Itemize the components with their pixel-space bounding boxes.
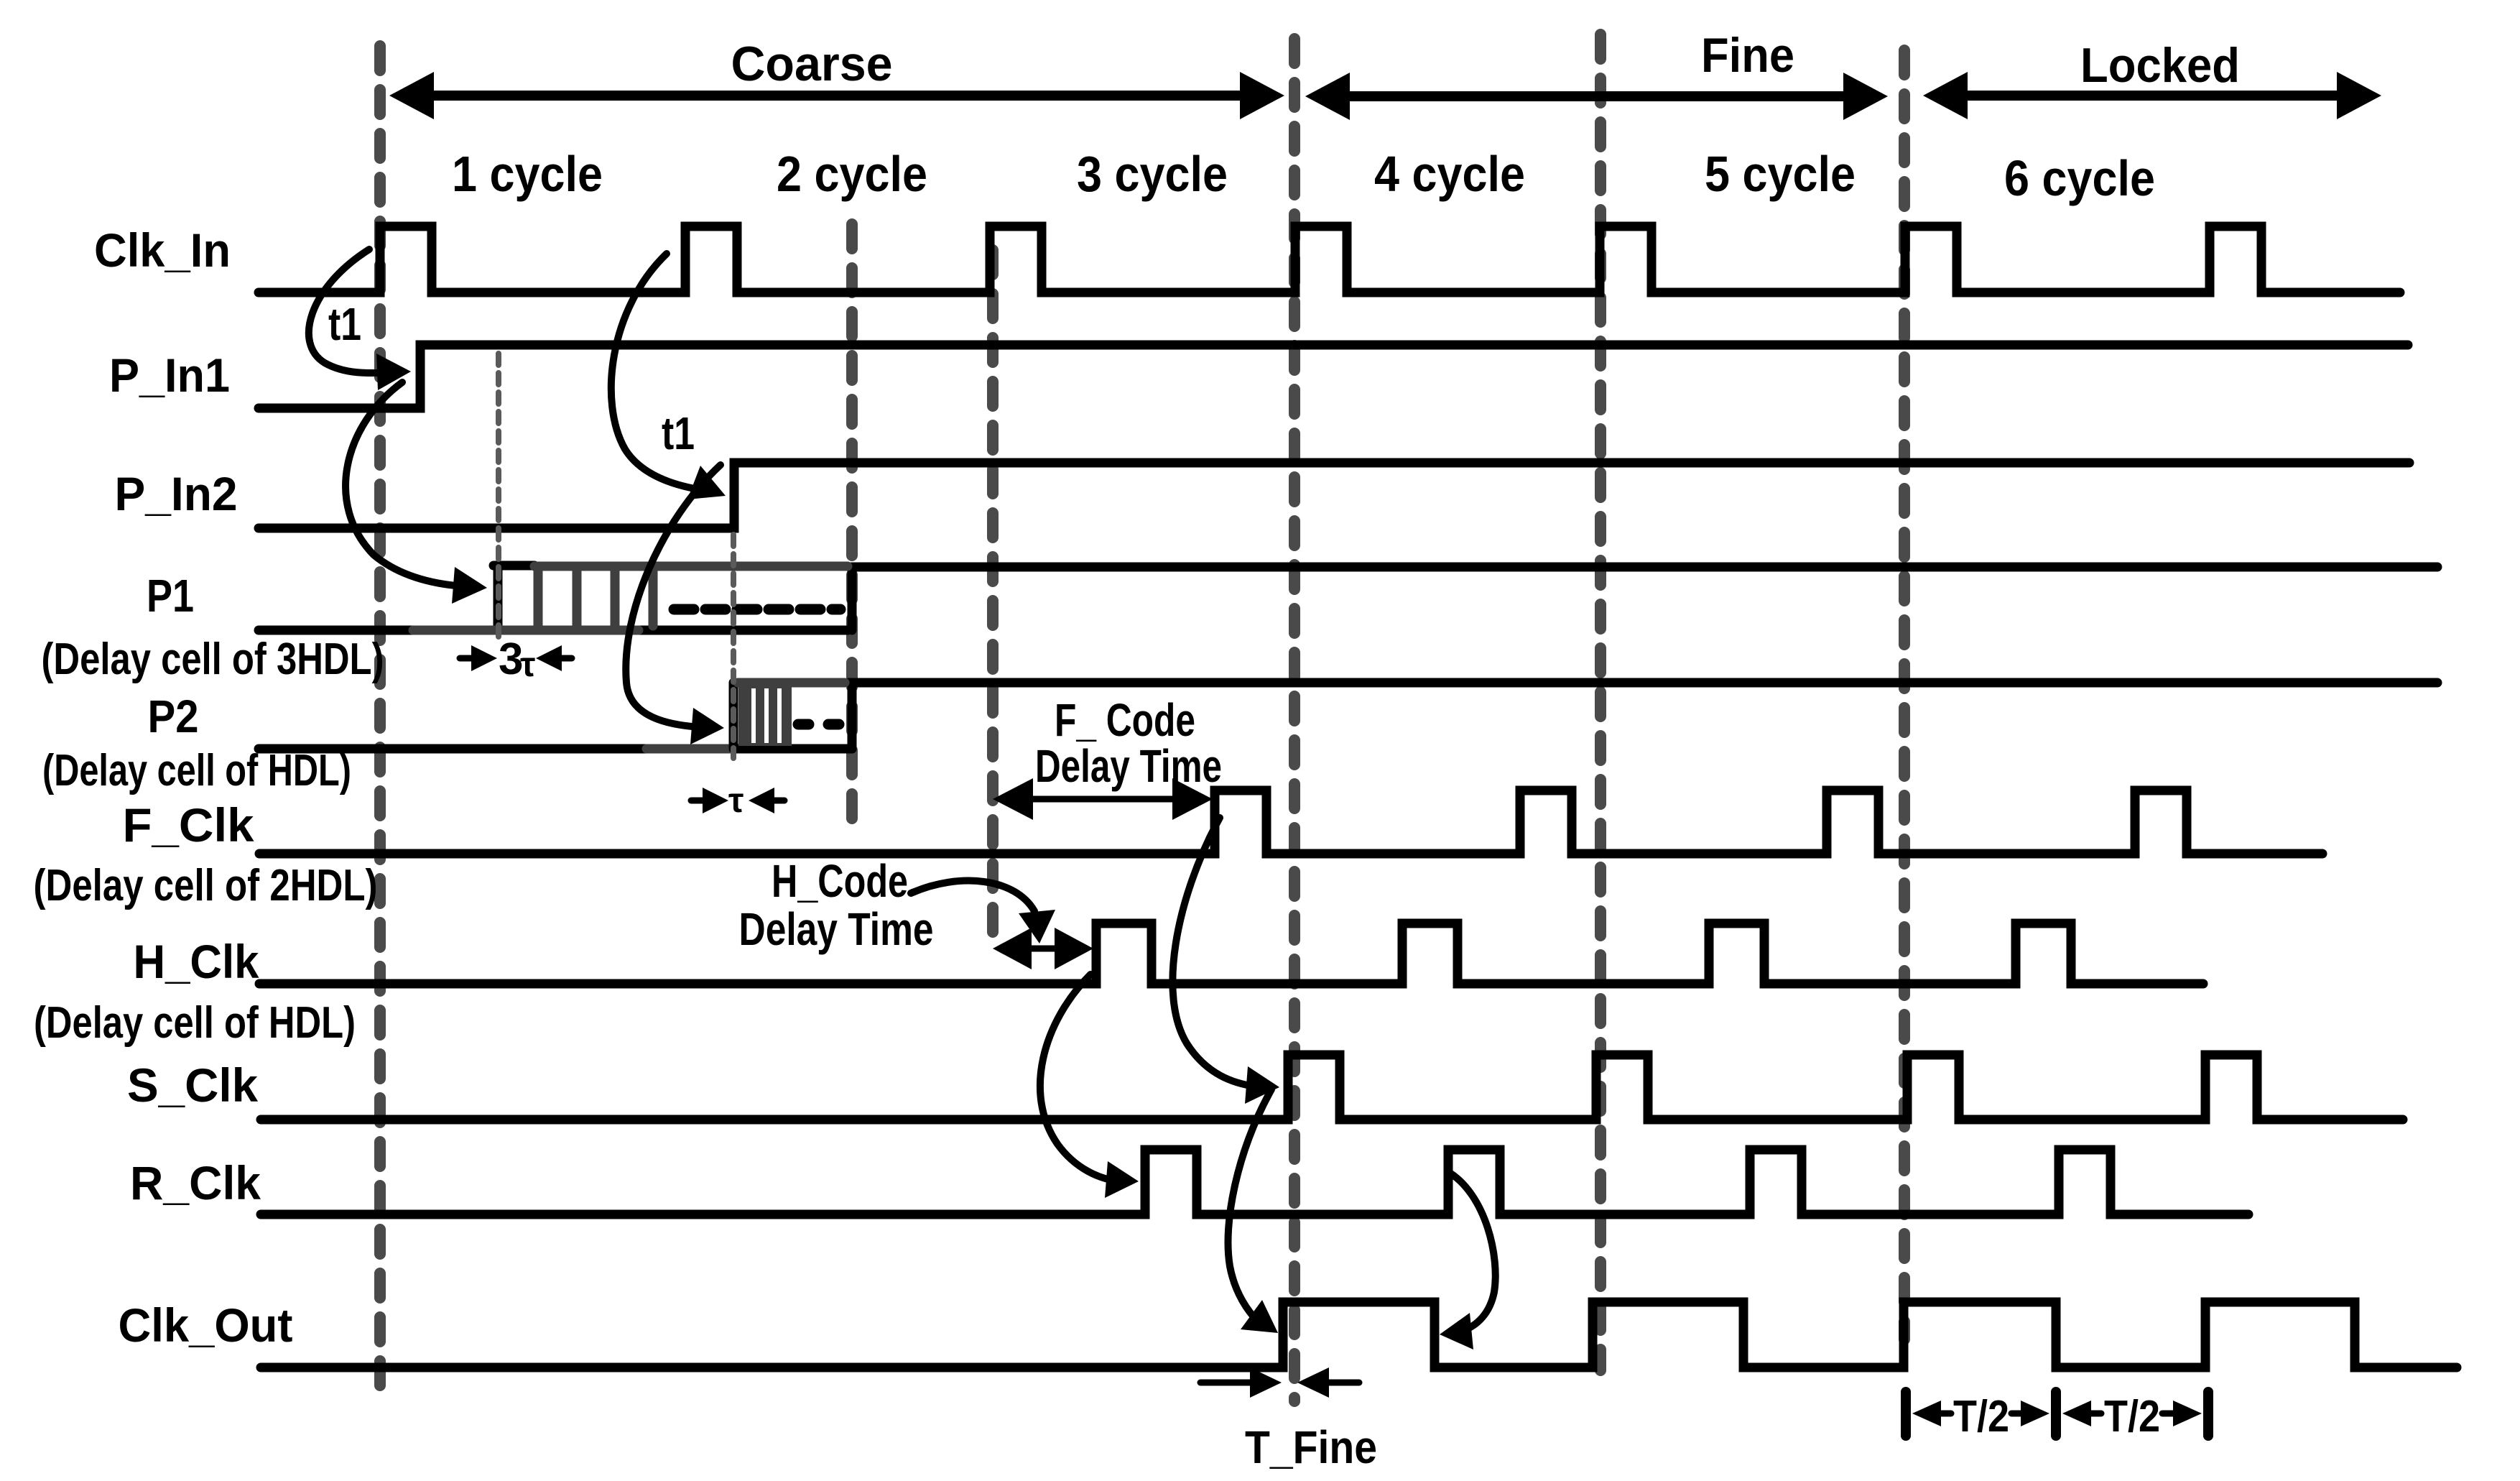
P2 uncertainty mid dash 2 [828, 719, 839, 730]
wire P1 low segment right [640, 626, 848, 635]
svg-text:T/2: T/2 [2104, 1392, 2160, 1441]
cycle boundary dashed line 5 (x=2228) [1595, 34, 1606, 1370]
svg-text:H_Clk: H_Clk [134, 935, 259, 988]
ghost P1 gray low segment [413, 626, 639, 635]
curve P_In1 edge to P1 ghost start [346, 382, 463, 586]
ghost P1 hatch rung 2 [573, 571, 582, 626]
svg-text:P_In1: P_In1 [109, 349, 230, 402]
SECTION: dashed grid lines [380, 34, 1904, 1401]
curve R_Clk pulse to Clk_Out falling edge [1450, 1173, 1496, 1331]
ghost P2 gray top rail [738, 678, 845, 688]
ghost P1 hatch rung 3 [611, 571, 620, 626]
svg-text:T_Fine: T_Fine [1245, 1421, 1377, 1473]
F_Code delay double arrow [993, 778, 1213, 820]
curve H_Clk pulse to R_Clk pulse [1040, 974, 1115, 1181]
wire P1 top corner black stub [494, 561, 534, 571]
SECTION: phase arrows and labels [389, 28, 2381, 206]
SECTION: waveforms [259, 226, 2457, 1367]
curve S_Clk pulse to Clk_Out rising edge [1228, 1089, 1271, 1322]
svg-text:t1: t1 [662, 407, 695, 459]
ghost P1 hatch rung 4 [649, 571, 658, 626]
svg-text:(Delay cell of 2HDL): (Delay cell of 2HDL) [34, 861, 378, 910]
ghost P2 hatch slit 3 [777, 688, 782, 743]
t1 delay curve Clk_In to P_In1 [309, 249, 392, 373]
P1 uncertainty mid dashes [674, 604, 840, 615]
svg-text:Coarse: Coarse [731, 37, 893, 91]
wire P1 rising edge and high level [852, 567, 2437, 630]
3tau dimension arrows [460, 645, 572, 671]
ghost P1 gray top rail [534, 562, 848, 571]
svg-text:(Delay cell of HDL): (Delay cell of HDL) [42, 746, 351, 795]
svg-text:F_ Code: F_ Code [1055, 694, 1195, 746]
Coarse phase double arrow [389, 72, 1284, 119]
wire P_In2 waveform [259, 463, 2409, 528]
svg-text:Delay Time: Delay Time [1035, 740, 1222, 792]
wire P2 low segment right [730, 744, 852, 754]
settle boundary dashed line 2 (x=1186) [846, 224, 858, 819]
tau dimension arrows [691, 788, 784, 813]
T_Fine dimension arrows [1200, 1367, 1359, 1398]
ghost P2 hatch slit 1 [751, 688, 756, 743]
wire P1 low segment left [259, 626, 417, 635]
curve F_Clk pulse to S_Clk pulse [1172, 818, 1256, 1086]
svg-text:2 cycle: 2 cycle [777, 146, 927, 202]
wire P1 ghost rising edge black [494, 566, 503, 626]
wire R_Clk waveform [261, 1150, 2248, 1214]
svg-text:F_Clk: F_Clk [123, 798, 254, 852]
svg-text:5 cycle: 5 cycle [1705, 146, 1856, 202]
svg-text:4 cycle: 4 cycle [1374, 146, 1525, 202]
thin dashed helper line at P1 ghost start (x=694) [496, 354, 501, 637]
T/2 tick bar 3 [2203, 1392, 2213, 1436]
cycle boundary dashed line 3 (x=1382) [987, 250, 999, 940]
svg-text:Locked: Locked [2080, 38, 2240, 93]
svg-text:τ: τ [728, 782, 744, 820]
svg-text:t1: t1 [328, 298, 361, 350]
thin dotted helper line at P2 ghost start (x=1021) [731, 535, 736, 758]
Fine phase double arrow [1305, 73, 1888, 120]
SECTION: dimension annotations [460, 635, 2208, 1473]
svg-text:(Delay cell of HDL): (Delay cell of HDL) [34, 998, 356, 1048]
wire P2 low segment left [259, 744, 648, 754]
svg-text:P1: P1 [147, 570, 194, 622]
svg-text:R_Clk: R_Clk [130, 1156, 261, 1209]
ghost P1 hatch rung 1 [534, 571, 543, 626]
svg-text:S_Clk: S_Clk [127, 1058, 258, 1112]
wire P2 ghost rising edge black [729, 683, 738, 749]
ghost P2 gray low segment [647, 744, 733, 754]
svg-text:P2: P2 [148, 691, 199, 742]
svg-text:Delay Time: Delay Time [739, 903, 934, 955]
svg-text:Clk_In: Clk_In [94, 223, 231, 277]
cycle boundary dashed line 4 (x=1802, Coarse/Fine) [1289, 39, 1300, 1401]
SECTION: signal labels [34, 223, 384, 1352]
T/2 tick bar 1 [1901, 1392, 1911, 1436]
T/2 tick bar 2 [2051, 1392, 2061, 1436]
curve P_In2 edge to P2 ghost start [626, 465, 721, 727]
wire Clk_Out waveform [261, 1302, 2457, 1367]
leader curve from H_Code label [911, 881, 1034, 911]
ghost P2 hatch block [738, 687, 792, 746]
T/2 double arrow 2 [2062, 1401, 2202, 1426]
Locked phase double arrow [1923, 72, 2381, 119]
svg-text:(Delay cell of 3HDL): (Delay cell of 3HDL) [42, 635, 384, 684]
svg-text:6 cycle: 6 cycle [2004, 150, 2155, 206]
SECTION: curved arrows [309, 249, 1496, 1349]
svg-text:1 cycle: 1 cycle [452, 146, 603, 202]
P2 uncertainty mid dash 1 [798, 719, 809, 730]
T/2 double arrow 1 [1912, 1401, 2049, 1426]
svg-text:T/2: T/2 [1953, 1392, 2009, 1441]
svg-text:H_Code: H_Code [772, 855, 908, 907]
svg-text:τ: τ [520, 646, 535, 684]
wire P2 rising edge and high level [852, 683, 2437, 749]
cycle boundary dashed line 1 (x=529) [374, 46, 386, 1393]
wire S_Clk waveform [261, 1055, 2403, 1120]
svg-text:Clk_Out: Clk_Out [119, 1298, 293, 1352]
t1 delay curve Clk_In to P_In2 [611, 254, 703, 490]
svg-text:P_In2: P_In2 [115, 467, 238, 520]
H_Code delay double arrow [993, 928, 1093, 969]
wire F_Clk waveform [259, 790, 2322, 854]
svg-text:Fine: Fine [1701, 28, 1794, 83]
wire Clk_In waveform [259, 226, 2400, 292]
wire P_In1 waveform [259, 345, 2408, 408]
ghost P2 hatch slit 2 [764, 688, 769, 743]
SECTION: thin helper dashed lines (drawn above waveforms) [499, 354, 733, 758]
wire H_Clk waveform [259, 923, 2203, 984]
cycle boundary dashed line 6 (x=2651, Fine/Locked) [1899, 50, 1910, 1339]
svg-text:3 cycle: 3 cycle [1077, 146, 1228, 202]
